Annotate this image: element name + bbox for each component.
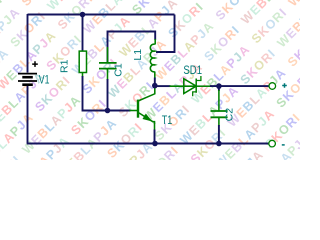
capacitor C2 (211, 111, 228, 117)
wire collector node to diode (155, 85, 171, 87)
transistor T1 (137, 100, 139, 118)
wire top rail (28, 14, 175, 16)
wire battery negative to ground rail (27, 85, 29, 143)
svg-text:R1: R1 (58, 59, 70, 73)
wire diode to output terminal (210, 85, 269, 87)
wire R1 bottom green stub (82, 72, 84, 77)
wire R1 top drop (82, 15, 84, 52)
node base junction (105, 108, 111, 114)
wire C1 top green stub (154, 39, 156, 45)
wire rail to L1 tap (156, 15, 175, 53)
wire diode anode lead (170, 85, 197, 87)
output terminal plus (269, 83, 276, 90)
diode SD1 (184, 79, 196, 94)
battery V1 plates (18, 74, 37, 85)
wire C2 top lead (218, 86, 220, 91)
svg-text:C2: C2 (224, 108, 236, 122)
node diode output junction (216, 83, 222, 89)
node emitter ground junction (152, 141, 158, 147)
resistor R1 (79, 51, 86, 72)
wire feedback loop C1 to L1 top (108, 32, 156, 64)
node C2 ground junction (216, 141, 222, 147)
inductor L1 (150, 44, 154, 72)
wire battery positive drop (27, 14, 29, 73)
wire L1 bottom lead (154, 72, 156, 79)
wire emitter lead (154, 123, 156, 131)
capacitor C1 (99, 63, 117, 69)
svg-text:SD1: SD1 (183, 64, 202, 77)
wire C1 top lead green (107, 47, 109, 63)
output terminal minus (269, 140, 276, 147)
node top rail junction (80, 12, 86, 18)
svg-text:V1: V1 (39, 73, 50, 87)
wire C2 bottom lead (218, 117, 220, 126)
svg-text:L1: L1 (132, 49, 144, 61)
label - output (282, 144, 285, 146)
svg-text:C1: C1 (113, 63, 125, 77)
label + output (282, 83, 287, 88)
node collector junction (152, 83, 158, 89)
wire bottom rail (27, 143, 269, 145)
battery plus sign (32, 61, 38, 67)
wire base green lead (130, 110, 138, 112)
wire base row (83, 76, 131, 111)
wire diode cathode lead (196, 85, 211, 87)
svg-text:T1: T1 (162, 114, 173, 128)
wire C1 bottom lead (107, 69, 109, 80)
